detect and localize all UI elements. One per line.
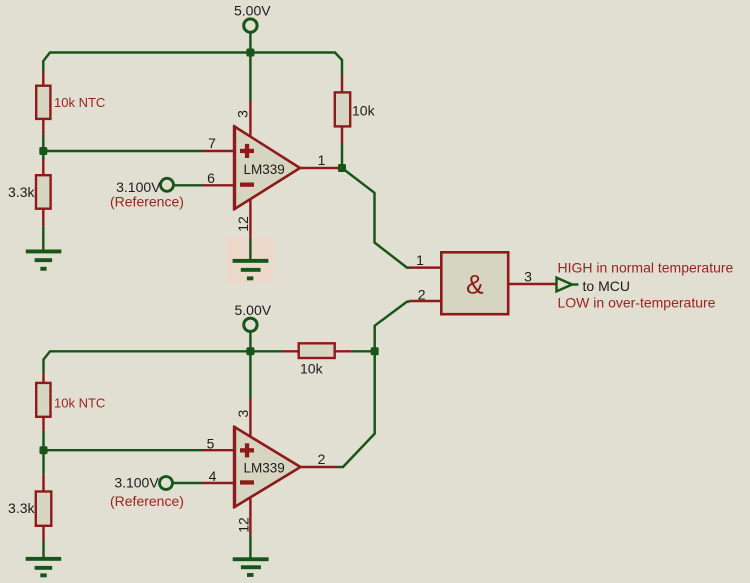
junction bottom rail / VCC2 [246,347,254,355]
svg-text:12: 12 [235,216,251,232]
resistor R2 3.3k [8,151,51,226]
wire node C up to gate pin 2 [375,302,410,352]
ground GND1 [26,250,62,271]
pin 5 (U2 IN+) [202,436,234,452]
svg-text:10k NTC: 10k NTC [54,396,105,411]
svg-text:4: 4 [209,468,217,484]
svg-text:(Reference): (Reference) [110,194,184,210]
power terminal VCC1 5.00V [234,3,271,33]
wire VCC2 rail to pin 3 [249,351,251,398]
AND gate U3 [441,252,508,314]
pin 4 (U2 IN-) [202,468,234,484]
wire node C down to U2 output [337,351,375,467]
node D junction [40,446,48,454]
node B junction [338,164,346,172]
ground GND4 [233,557,269,577]
wire R5 to node D [42,431,44,451]
svg-text:3.3k: 3.3k [8,184,35,200]
wire R3 to node B [341,145,343,169]
svg-text:&: & [466,270,484,300]
wire pin 12 to ground [249,536,251,558]
resistor R1 10k NTC [36,71,105,135]
svg-text:2: 2 [318,451,326,467]
pin 3 (U3 output) [510,269,556,285]
svg-text:(Reference): (Reference) [110,493,184,509]
ground GND2 [233,259,269,280]
svg-text:LM339: LM339 [244,461,285,476]
resistor R3 10k [335,76,376,145]
svg-text:5.00V: 5.00V [235,302,272,318]
svg-text:3.3k: 3.3k [8,500,35,516]
terminal VREF2 3.100V [110,475,184,510]
ground GND3 [26,557,62,577]
selection highlight on GND2 [226,237,273,283]
wire top rail [43,53,342,77]
wire VCC1 stub [249,33,251,53]
svg-text:6: 6 [207,170,215,186]
pin 2 (U3 input B) [409,287,441,303]
wire VREF2 to pin 4 [173,482,202,484]
wire VCC rail to pin 3 [249,53,251,101]
svg-text:5: 5 [207,436,215,452]
svg-text:3: 3 [235,409,251,417]
resistor R5 10k NTC [36,373,105,430]
node A junction [39,147,47,155]
wire node B to gate pin 1 [342,168,410,268]
pin 2 (U2 OUT) [301,451,338,467]
junction top rail / VCC1 [246,49,254,57]
svg-text:3: 3 [235,110,251,118]
wire R1 to node A [42,135,44,151]
pin 6 (U1 IN-) [202,170,234,186]
svg-text:12: 12 [235,517,251,533]
svg-text:to MCU: to MCU [583,278,630,294]
wire R4 to node C [352,350,375,352]
op-amp U1 LM339 [235,126,301,211]
node C junction [371,347,379,355]
svg-text:2: 2 [418,287,426,303]
pin 1 (U1 OUT) [300,152,340,168]
pin 12 (U2 GND) [235,497,251,536]
svg-text:10k: 10k [300,361,324,377]
svg-text:5.00V: 5.00V [234,3,271,19]
pin 3 (U2 VCC) [235,398,251,437]
svg-text:LM339: LM339 [244,162,285,177]
svg-text:10k: 10k [352,103,376,119]
wire node A to pin 7 [43,150,202,152]
pin 1 (U3 input A) [409,252,441,268]
wire R2 to ground [42,226,44,250]
wire bottom rail [44,351,283,373]
wire R6 to ground [42,541,44,558]
pin 7 (U1 IN+) [202,135,234,151]
svg-text:LOW in over-temperature: LOW in over-temperature [558,295,716,311]
resistor R6 3.3k [8,450,51,540]
output terminal to MCU [557,278,630,294]
wire pin 12 to ground [249,237,251,260]
wire node D to pin 5 [44,449,203,451]
svg-text:1: 1 [416,252,424,268]
pin 3 (U1 VCC) [235,101,251,138]
resistor R4 10k horizontal [283,343,352,376]
wire VREF1 to pin 6 [174,184,202,186]
svg-text:3.100V: 3.100V [114,475,159,491]
svg-text:HIGH in normal temperature: HIGH in normal temperature [558,260,734,276]
terminal VREF1 3.100V [110,178,184,209]
svg-text:10k NTC: 10k NTC [54,95,105,110]
svg-text:1: 1 [318,152,326,168]
pin 12 (U1 GND) [235,200,251,238]
svg-text:7: 7 [208,135,216,151]
op-amp U2 LM339 [235,426,301,508]
power terminal VCC2 5.00V [235,302,272,331]
wire VCC2 stub [249,332,251,351]
svg-text:3: 3 [524,269,532,285]
